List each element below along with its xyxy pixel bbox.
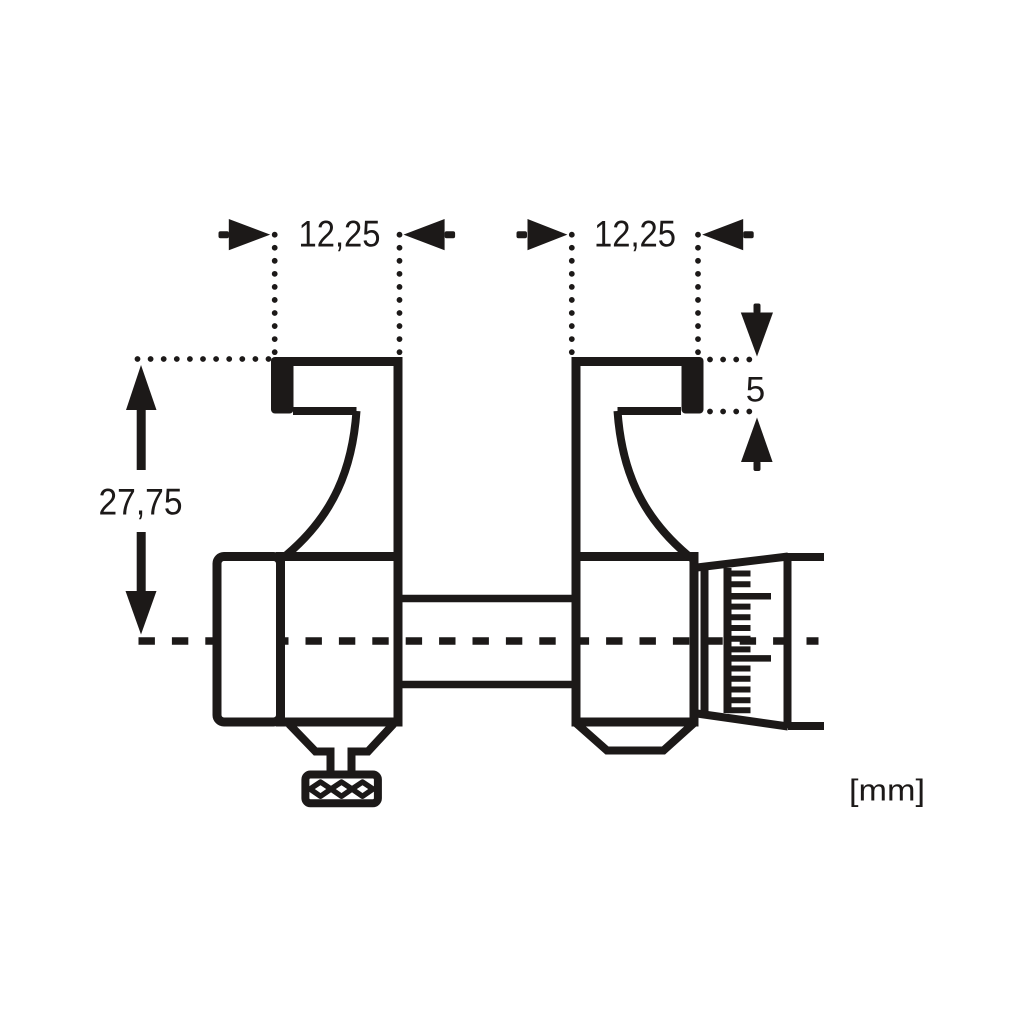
svg-text:[mm]: [mm]	[849, 773, 925, 808]
svg-text:12,25: 12,25	[299, 214, 381, 255]
svg-text:27,75: 27,75	[99, 482, 183, 523]
svg-text:12,25: 12,25	[594, 214, 676, 255]
svg-text:5: 5	[746, 371, 765, 410]
